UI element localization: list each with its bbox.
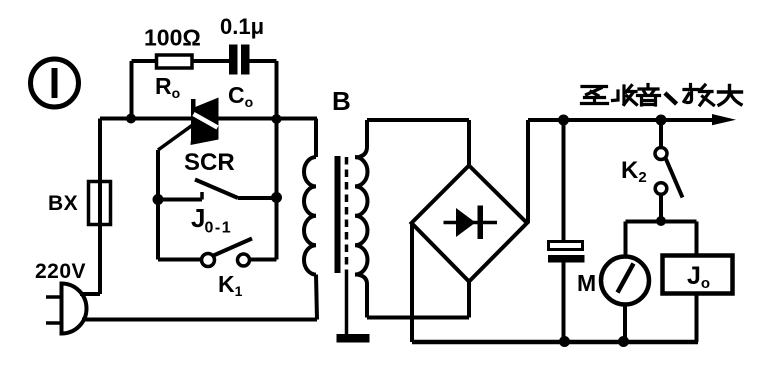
wire: bridge left corner down to bottom rail [410,223,414,342]
node: junction main wire / snubber left [126,114,136,124]
svg-text:SCR: SCR [184,149,235,176]
switch K1 left contact circle [202,254,215,267]
node: junction gate rail / J0-1 branch [153,194,164,205]
node: junction bottom rail / meter [618,336,629,347]
wire: secondary top to bridge top corner [367,118,469,122]
wire: transformer secondary bottom lead [356,274,368,317]
thyristor SCR cathode bar [191,99,196,141]
wire: plug upper terminal to left rail [80,292,100,296]
hanzi comma [667,95,676,103]
bridge diode cathode bar [478,206,484,240]
wire: snubber top right segment [250,59,277,63]
wire: transformer primary top vertical [314,119,318,158]
wire: meter bottom lead [623,305,627,343]
bridge diode triangle [456,208,476,237]
thyristor SCR triangle [191,98,219,146]
wire: K2 lower lead [659,195,663,222]
wire: K1 bottom right segment [250,258,277,262]
svg-text:B: B [332,86,351,116]
transformer core lamination dashed line [345,157,349,273]
meter needle [618,264,634,293]
plug 220V body [62,284,87,334]
bridge diode lead [444,221,498,225]
wire: M capacitor bottom lead [562,263,566,343]
svg-text:BX: BX [48,192,78,215]
svg-text:K1: K1 [218,271,243,299]
node: junction bottom rail / M capacitor [559,336,570,347]
plug prong upper [46,295,61,299]
switch K1 right contact circle [238,254,250,266]
wire: bridge bottom corner riser [467,282,471,318]
wire: bridge right corner up to top rail [526,120,530,223]
wire: J0 bottom lead [695,294,699,343]
wire: SCR gate diagonal lead [158,124,194,150]
capacitor C0 plate left [229,45,238,75]
svg-text:0-1: 0-1 [205,220,233,237]
svg-text:Ro: Ro [155,73,180,101]
label: Chinese text "to radio, amplifier" drawn as strokes [582,85,742,106]
hanzi FANG (amplify-1) [684,85,714,106]
wire: J0-1 branch right segment [238,196,277,200]
relay J0 box [663,256,733,294]
node: junction K2 / meter-J0 branch [656,216,666,226]
switch K2 blade [666,158,683,198]
hanzi ZHI (to) [582,87,608,104]
wire: J0 top riser [695,222,699,257]
svg-text:100Ω: 100Ω [144,25,201,51]
svg-text:K2: K2 [621,157,647,186]
contact J0-1 fixed hook [200,192,204,200]
figure number badge (1) circle [31,59,79,107]
switch K2 upper contact circle [655,148,667,160]
wire: M capacitor top lead [562,120,566,242]
wire: top output rail with arrow [528,118,716,122]
svg-text:0.1μ: 0.1μ [220,14,264,39]
wire: snubber top left segment [132,59,158,63]
plug prong lower [46,321,61,325]
wire: gate rail vertical down [156,150,160,260]
wire: bridge top corner riser [467,120,471,166]
thyristor SCR white gate slash [194,114,218,128]
wire: transformer secondary top vertical [356,120,368,158]
wire: core to ground lead [345,273,349,334]
bridge rectifier diamond [412,166,528,282]
switch K1 blade [214,239,253,256]
hanzi SHOU (receive) [613,86,637,105]
wire: meter top riser [624,222,628,258]
figure number badge digit 1 [52,68,58,98]
wire: bottom rail [412,340,698,345]
node: junction top rail / K2 [656,115,667,126]
transformer secondary winding [355,157,368,275]
contact J0-1 blade [195,180,238,199]
meter body circle [601,257,649,305]
wire: snubber left vertical [130,61,134,119]
wire: left rail from main wire down through fuse to plug [98,119,102,295]
transformer core solid bar [335,156,341,273]
wire: snubber middle segment R0 to C0 [192,59,229,63]
fuse BX body [89,182,111,225]
wire: right rail vertical [275,119,279,260]
wire: J0-1 branch left segment [158,198,202,202]
svg-text:J: J [191,203,205,233]
wire: snubber right vertical down to main wire [275,61,279,119]
node: junction top rail / M capacitor [558,115,569,126]
capacitor M bottom plate (solid) [548,255,585,263]
wire: plug lower terminal to transformer primary bottom [82,318,317,322]
node: junction main wire / C0 right leg [272,114,282,124]
wire: K1 bottom left segment [158,258,202,262]
wire: K2 top lead [659,120,663,148]
svg-text:M: M [577,270,596,296]
transformer primary winding [304,157,316,275]
ground symbol bar [337,334,370,343]
node: junction right rail / J0-1 [271,192,282,203]
arrow head of output rail [712,114,736,125]
capacitor C0 plate right [241,45,250,75]
wire: main top wire from left rail to transformer primary [100,117,317,121]
wire: transformer primary bottom lead [316,275,317,320]
capacitor M top plate (outlined) [549,242,583,250]
svg-text:220V: 220V [35,260,86,283]
hanzi DA (big) [719,86,742,106]
wire: meter-J0 top horizontal [626,220,697,224]
wire: secondary bottom to bridge bottom corner [367,316,469,320]
hanzi YIN (sound) [638,85,660,106]
resistor R0 body [157,55,193,68]
svg-text:Co: Co [228,82,253,110]
switch K2 lower contact circle [655,183,667,195]
